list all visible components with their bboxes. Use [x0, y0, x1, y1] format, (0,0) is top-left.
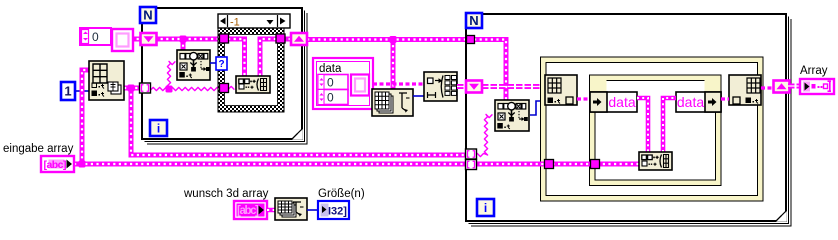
svg-text:i: i [484, 201, 487, 215]
svg-text:eingabe array: eingabe array [3, 143, 74, 155]
svg-text:0: 0 [327, 76, 334, 90]
svg-text:Array: Array [800, 65, 828, 77]
svg-text:data: data [677, 94, 704, 110]
svg-text:data: data [319, 63, 342, 75]
svg-text:Größe(n): Größe(n) [318, 188, 365, 200]
svg-text:0: 0 [92, 30, 99, 44]
svg-text:i: i [157, 121, 160, 135]
svg-text:0: 0 [327, 91, 334, 105]
svg-text:I32]: I32] [328, 206, 347, 218]
svg-text:wunsch 3d array: wunsch 3d array [183, 188, 269, 200]
svg-text:data: data [608, 94, 635, 110]
svg-text:?: ? [218, 59, 224, 70]
svg-text:1: 1 [64, 84, 71, 99]
svg-text:[abc]: [abc] [237, 205, 259, 217]
svg-text:[abc]: [abc] [44, 159, 67, 171]
svg-text:N: N [469, 13, 478, 28]
svg-text:-1: -1 [230, 17, 240, 29]
svg-text:N: N [143, 8, 152, 23]
